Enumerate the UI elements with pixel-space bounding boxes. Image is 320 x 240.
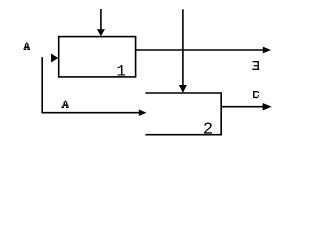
wire: output arrow C from box 2 [221, 106, 263, 108]
arrowhead into box 2 left [139, 109, 147, 116]
arrowhead of output C [263, 103, 272, 111]
wire: vertical branch line from A [41, 57, 43, 112]
arrowhead into top of box 2 [179, 85, 187, 93]
wire: long vertical arrow into box 2 [182, 9, 184, 85]
wire: output arrow 3 from box 1 [136, 49, 264, 51]
arrowhead of output 3 [263, 47, 271, 54]
wire: horizontal line into box 2 [41, 112, 139, 114]
node A label (above lower wire, pixel glyph) [61, 101, 68, 108]
box 2 (no left edge) [145, 93, 221, 135]
node C label (square bitmap style) [253, 91, 259, 98]
svg-text:1: 1 [116, 62, 126, 80]
wire: top arrow into box 1 [100, 9, 102, 30]
node A label (top left, pixel glyph) [24, 43, 30, 50]
svg-text:2: 2 [203, 120, 213, 137]
box 1 [59, 37, 136, 77]
arrowhead into top of box 1 [97, 29, 105, 36]
arrowhead into left of box 1 [51, 54, 58, 63]
node 3 label (flat-top bitmap style) [252, 61, 259, 70]
